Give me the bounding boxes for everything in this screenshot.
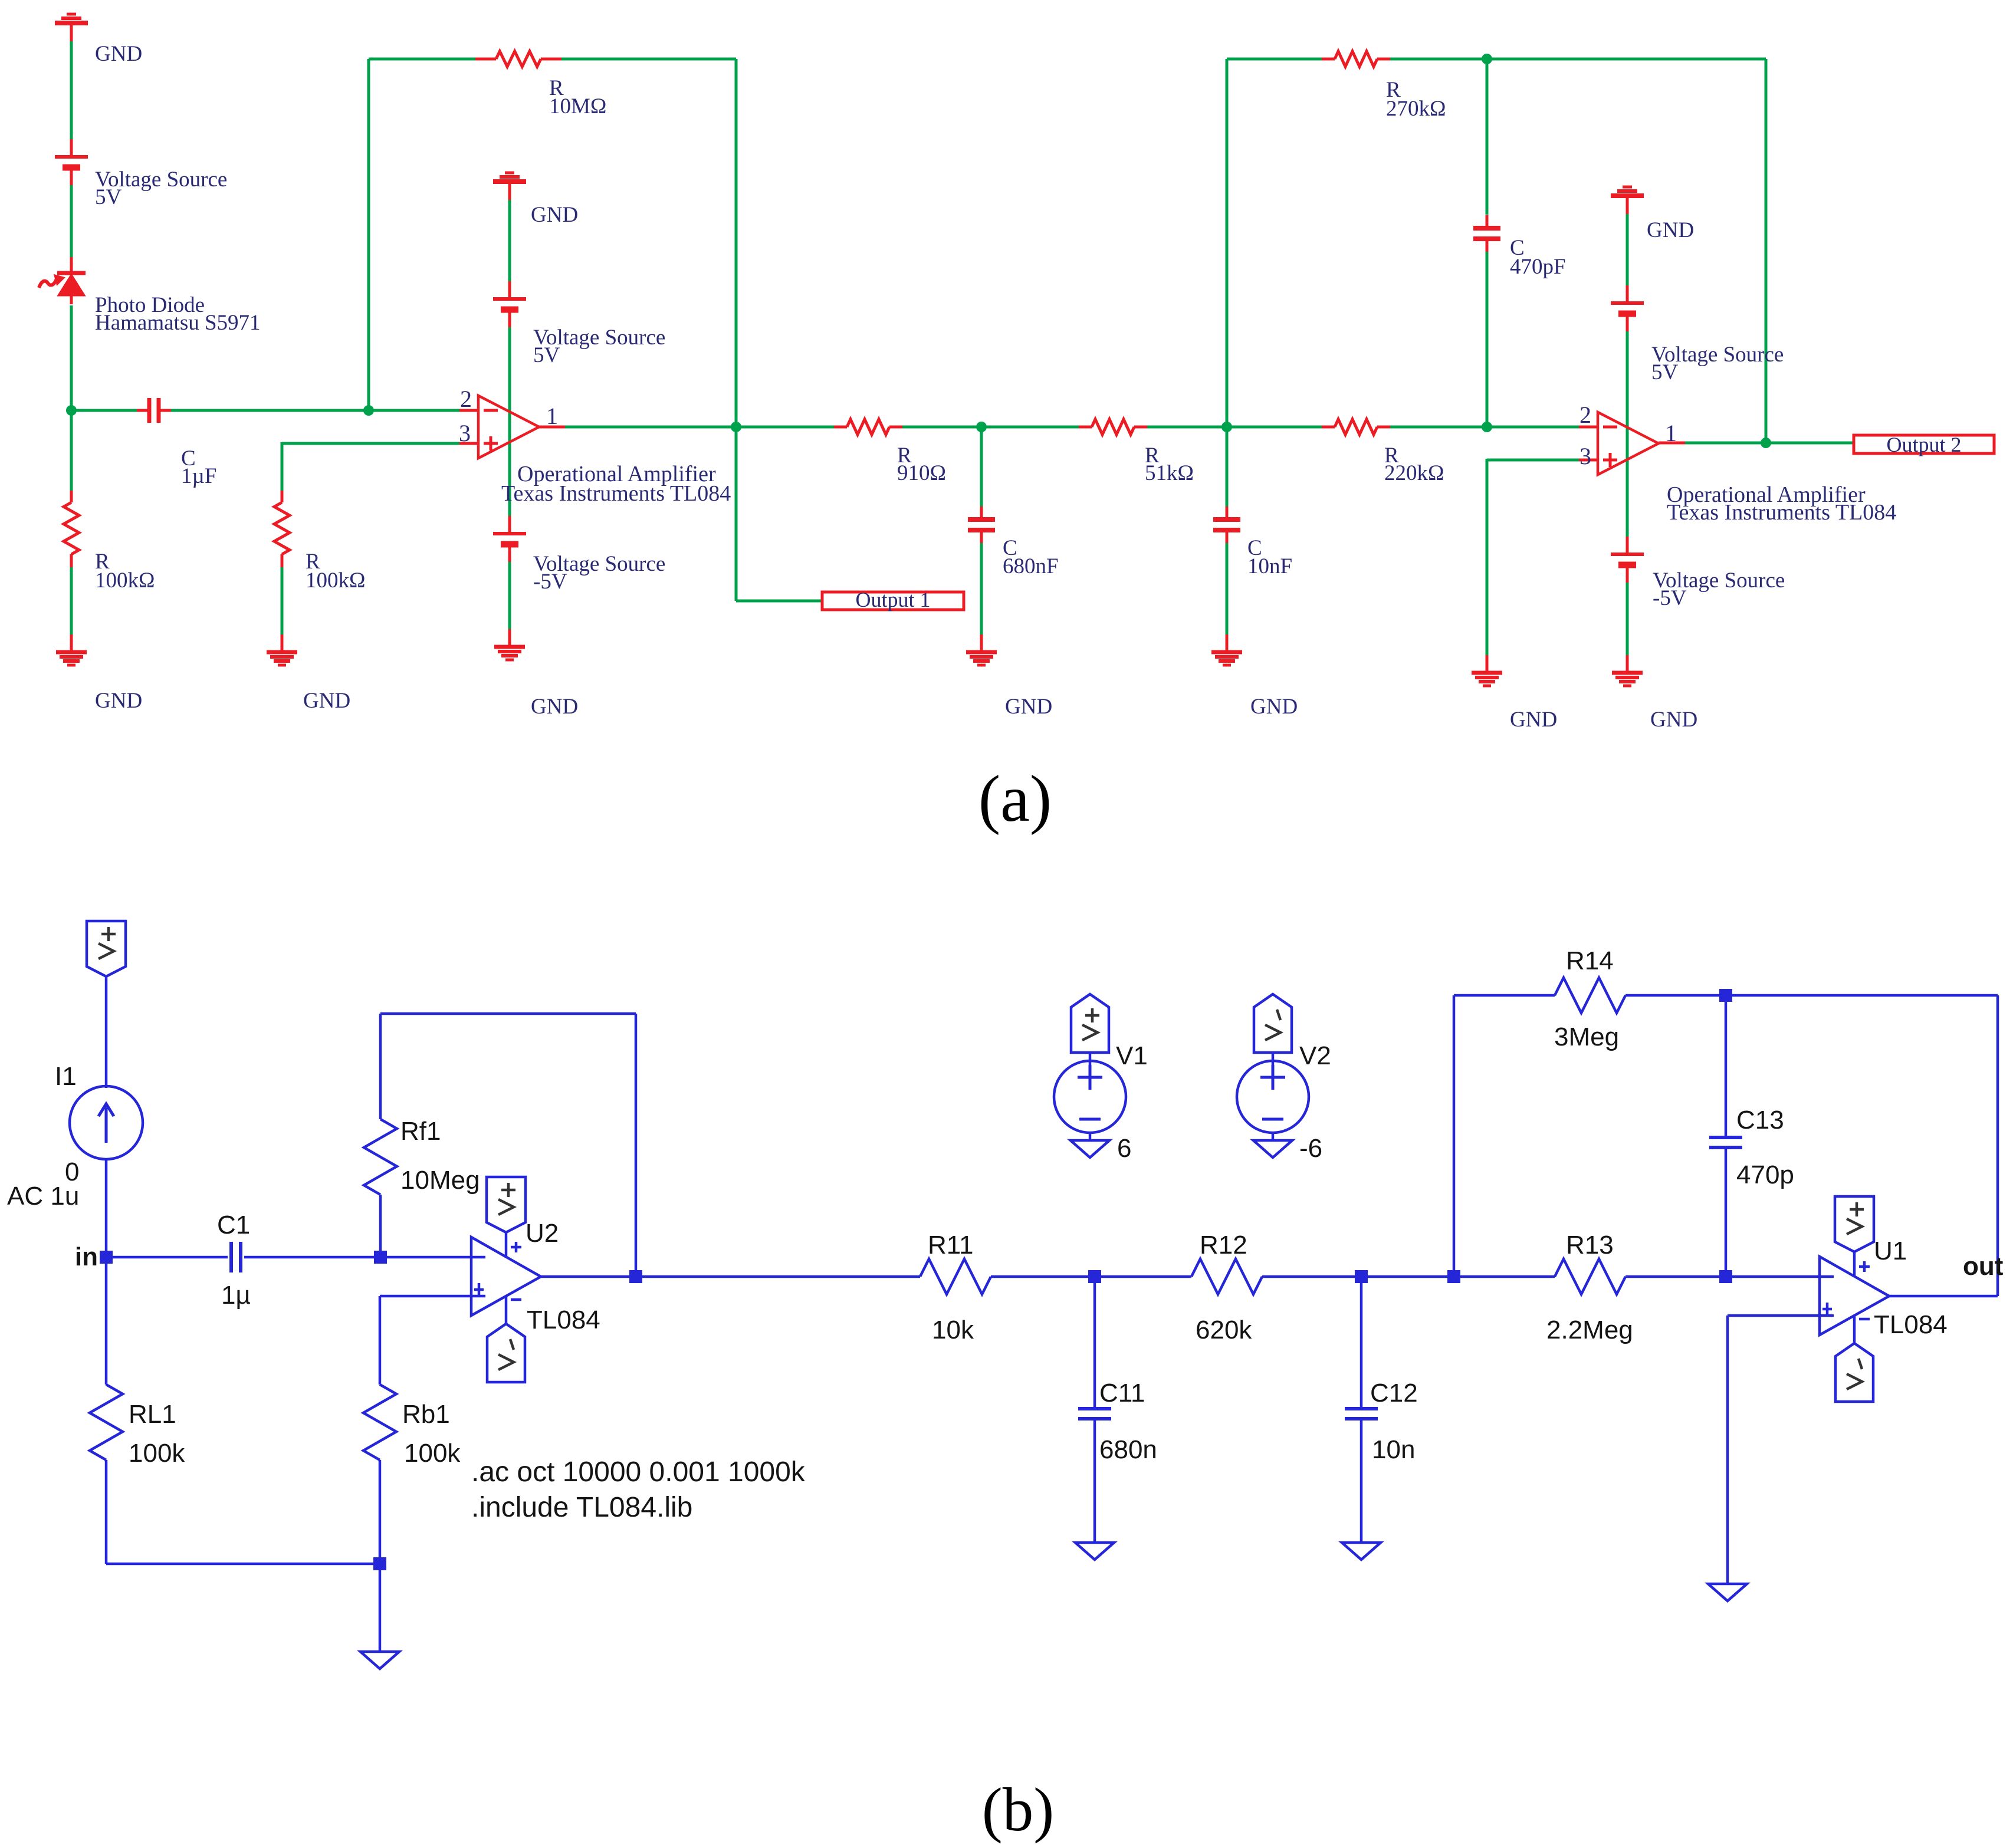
wire (output row) [565, 426, 834, 429]
capacitor C13 470p column [1709, 995, 1742, 1277]
svg-text:Texas Instruments TL084: Texas Instruments TL084 [1667, 500, 1896, 525]
svg-text:3: 3 [1579, 443, 1591, 469]
svg-text:in: in [75, 1242, 98, 1271]
node (R12/R13/R14 tap) [1447, 1270, 1460, 1283]
svg-text:GND: GND [1650, 708, 1697, 732]
wire [1147, 426, 1322, 429]
op-amp U1 TL084 (stage 1) [478, 396, 539, 458]
svg-text:GND: GND [1250, 695, 1298, 719]
ground GND (op-amp2 V-) [1612, 655, 1643, 686]
resistor R 100k (bias) [274, 491, 290, 567]
svg-text:10k: 10k [932, 1316, 974, 1344]
ground GND (op-amp1 V-) [494, 629, 525, 660]
wire (C12 column) [1360, 1277, 1363, 1407]
node (output2) [1761, 438, 1771, 448]
wire [105, 976, 108, 1088]
net flag V+ (U1) [1835, 1196, 1874, 1252]
label Voltage Source 5V [95, 167, 227, 209]
node (output / feedback / Output1) [731, 422, 741, 432]
node (C1/Rf1/U2-) [374, 1251, 387, 1264]
wire (RL1 column) [105, 1257, 108, 1385]
svg-text:(b): (b) [982, 1775, 1054, 1844]
wire [991, 1275, 1191, 1278]
ground (C11) [1075, 1543, 1114, 1560]
svg-text:100kΩ: 100kΩ [306, 568, 366, 593]
wire (pin3 stub) [459, 442, 478, 445]
resistor R13 2.2Meg [1555, 1259, 1625, 1294]
wire (Rf1 bottom) [379, 1195, 382, 1257]
capacitor C1 1u [231, 1242, 241, 1272]
capacitor C 10nF [1213, 507, 1240, 543]
svg-text:470p: 470p [1736, 1160, 1794, 1189]
svg-text:R11: R11 [928, 1231, 973, 1260]
wire (C10n drop) [1226, 427, 1229, 507]
wire (feedback2 right riser) [1765, 59, 1768, 443]
wire (C680n drop) [980, 427, 983, 507]
wire [508, 327, 511, 516]
label Voltage Source -5V [533, 552, 665, 594]
wire (bottom joining) [106, 1460, 380, 1564]
wire [1262, 1275, 1555, 1278]
svg-text:R14: R14 [1566, 946, 1614, 975]
ground GND (op-amp1 V+) [493, 173, 526, 200]
wire [1625, 994, 1998, 997]
svg-text:GND: GND [1647, 218, 1694, 242]
wire [106, 1256, 228, 1259]
svg-text:2: 2 [460, 386, 472, 412]
voltage source V1 6 [1054, 1053, 1126, 1158]
node (U2 out / feedback) [629, 1270, 642, 1283]
svg-text:220kΩ: 220kΩ [1384, 461, 1444, 485]
label R 270k [1386, 78, 1446, 121]
svg-text:Texas Instruments TL084: Texas Instruments TL084 [501, 481, 731, 506]
label R 100k [306, 550, 366, 593]
resistor R 100k (left) [64, 491, 79, 567]
resistor R14 3Meg [1555, 978, 1625, 1013]
wire (U2 out to R11) [541, 1275, 905, 1278]
svg-text:GND: GND [95, 689, 142, 713]
svg-text:10Meg: 10Meg [400, 1166, 480, 1195]
svg-text:R13: R13 [1566, 1231, 1614, 1260]
wire [1390, 426, 1579, 429]
svg-text:10MΩ: 10MΩ [549, 94, 606, 119]
resistor R11 10k [920, 1259, 991, 1294]
resistor R 270k (feedback) [1322, 51, 1390, 67]
label Voltage Source 5V [533, 325, 665, 367]
wire (pin2 stub op-amp2) [1579, 426, 1598, 429]
svg-text:100k: 100k [404, 1439, 461, 1468]
op-amp U1 TL084 [1820, 1252, 1889, 1343]
wire (feedback riser) [367, 59, 370, 410]
wire [379, 1564, 382, 1652]
node (R910/C680n) [976, 422, 987, 432]
net flag V- (V2) [1254, 994, 1292, 1053]
wire [1390, 58, 1766, 61]
node (feedback2 / C470p) [1482, 54, 1492, 64]
svg-text:out: out [1963, 1252, 2004, 1281]
svg-text:.include TL084.lib: .include TL084.lib [471, 1492, 692, 1523]
resistor Rf1 10Meg [364, 1119, 397, 1195]
wire [561, 58, 736, 61]
svg-text:51kΩ: 51kΩ [1145, 461, 1194, 485]
svg-text:C12: C12 [1370, 1379, 1418, 1408]
resistor R 51k [1079, 419, 1147, 435]
svg-text:C1: C1 [217, 1211, 250, 1239]
svg-text:TL084: TL084 [527, 1306, 600, 1334]
port Output 2 [1854, 433, 1994, 456]
svg-text:6: 6 [1117, 1134, 1131, 1163]
label R 910 [897, 443, 946, 485]
voltage source 5V (op-amp1) [493, 281, 526, 327]
wire (feedback loop U2) [380, 1014, 636, 1277]
svg-text:U1: U1 [1874, 1237, 1907, 1265]
node (feedback tap) [363, 405, 374, 416]
svg-text:.ac oct 10000 0.001 1000k: .ac oct 10000 0.001 1000k [471, 1456, 806, 1488]
label R 100k [95, 550, 155, 593]
svg-text:Rf1: Rf1 [400, 1117, 441, 1146]
wire [70, 41, 73, 139]
wire [1625, 1275, 1820, 1278]
svg-text:C13: C13 [1736, 1106, 1784, 1135]
ground (U1 +) [1708, 1584, 1747, 1601]
net flag V+ (I1 top) [87, 921, 126, 976]
ground (Rb1) [360, 1652, 399, 1669]
node (photodiode / C / RL) [66, 405, 77, 416]
capacitor C 470pF column [1473, 59, 1500, 427]
wire (out) [1889, 995, 1998, 1296]
label R 10M [549, 76, 606, 119]
wire (op-amp2 pin3 to ground) [1487, 459, 1579, 656]
svg-text:100kΩ: 100kΩ [95, 568, 155, 593]
node (R13/C13/U1-) [1719, 1270, 1732, 1283]
ground (C12) [1342, 1543, 1381, 1560]
svg-text:470pF: 470pF [1510, 255, 1566, 279]
voltage source -5V (op-amp1) [493, 516, 526, 562]
current source I1 [70, 1086, 143, 1159]
wire (R14 riser) [1454, 995, 1555, 1277]
wire [379, 1460, 382, 1564]
voltage source -5V (op-amp2) [1611, 537, 1644, 583]
ground GND (C10n) [1211, 634, 1242, 665]
voltage source 5V (photodiode bias) [55, 139, 88, 185]
svg-text:5V: 5V [1651, 360, 1679, 384]
label R 220k [1384, 443, 1444, 485]
wire [281, 567, 284, 636]
svg-text:3Meg: 3Meg [1554, 1022, 1619, 1051]
wire (feedback2 riser) [1226, 59, 1229, 427]
svg-text:1µ: 1µ [221, 1281, 251, 1310]
node (R12/C12) [1355, 1270, 1368, 1283]
wire (feedback top rail) [369, 58, 475, 61]
svg-text:GND: GND [303, 689, 350, 713]
wire (output stub) [539, 426, 565, 429]
net flag V- (U1) [1835, 1343, 1873, 1402]
wire [1626, 583, 1629, 656]
ground GND (C680n) [966, 634, 997, 665]
wire [905, 1275, 920, 1278]
svg-text:U2: U2 [526, 1219, 559, 1248]
node (R14/C13) [1719, 989, 1732, 1002]
svg-text:R12: R12 [1200, 1231, 1247, 1260]
svg-text:I1: I1 [55, 1062, 77, 1091]
label C 10nF [1247, 536, 1292, 578]
net flag V+ (V1) [1071, 994, 1109, 1053]
net flag V+ (U2) [487, 1177, 526, 1232]
label C 680nF [1003, 536, 1059, 578]
svg-text:5V: 5V [533, 343, 560, 367]
wire (U1 + input to ground) [1728, 1316, 1820, 1584]
svg-text:AC 1u: AC 1u [7, 1182, 79, 1211]
label C 1uF [181, 446, 216, 488]
wire [71, 409, 137, 412]
svg-text:100k: 100k [129, 1439, 185, 1468]
node in [100, 1251, 113, 1264]
wire [70, 567, 73, 636]
svg-text:270kΩ: 270kΩ [1386, 97, 1446, 121]
svg-text:10n: 10n [1372, 1435, 1415, 1464]
svg-text:Rb1: Rb1 [402, 1400, 450, 1429]
resistor R 220k [1322, 419, 1390, 435]
label C 470pF [1510, 236, 1566, 279]
resistor R12 620k [1191, 1259, 1262, 1294]
wire (output row 2) [1685, 442, 1853, 445]
svg-text:-6: -6 [1299, 1134, 1322, 1163]
svg-text:-5V: -5V [1653, 586, 1687, 610]
node (R11/C11) [1088, 1270, 1101, 1283]
resistor RL1 100k [90, 1385, 123, 1460]
ground GND (below RL) [56, 634, 87, 665]
label Voltage Source 5V [1651, 343, 1784, 384]
svg-text:3: 3 [459, 420, 471, 446]
svg-text:Hamamatsu S5971: Hamamatsu S5971 [95, 311, 261, 335]
wire (feedback2 top rail) [1227, 58, 1322, 61]
wire [980, 543, 983, 636]
wire (inverting input stub) [459, 409, 478, 412]
ground GND (below bias R) [267, 634, 297, 665]
label Operational Amplifier Texas Instruments TL084 (2) [1667, 482, 1896, 525]
wire [508, 562, 511, 630]
wire [1226, 543, 1229, 636]
op-amp U2 TL084 [471, 1232, 541, 1324]
svg-text:GND: GND [95, 42, 142, 66]
capacitor C 680nF [968, 507, 995, 543]
wire [1626, 214, 1629, 285]
photo diode D1 Hamamatsu S5971 [39, 257, 86, 304]
wire (U2 + input to Rb1) [380, 1296, 471, 1385]
svg-text:620k: 620k [1196, 1316, 1252, 1344]
wire (non-inverting input) [282, 442, 459, 491]
svg-text:2.2Meg: 2.2Meg [1546, 1316, 1633, 1344]
capacitor C11 680n [1078, 1409, 1111, 1419]
voltage source 5V (op-amp2) [1611, 285, 1644, 331]
wire [1626, 331, 1629, 537]
wire [1093, 1419, 1096, 1543]
wire (pin3 stub) [1579, 459, 1598, 462]
wire [70, 305, 73, 410]
svg-text:GND: GND [1005, 695, 1052, 719]
wire (to Output 1) [736, 427, 822, 601]
svg-text:1µF: 1µF [181, 464, 216, 488]
svg-text:C11: C11 [1099, 1379, 1145, 1408]
ground GND (op-amp2 pin3) [1472, 655, 1502, 686]
svg-text:GND: GND [531, 695, 578, 719]
svg-text:Output 1: Output 1 [855, 588, 930, 611]
port Output 1 [822, 588, 964, 611]
wire (R load column) [70, 410, 73, 491]
capacitor C12 10n [1345, 1409, 1378, 1419]
resistor R 910 [834, 419, 902, 435]
node (RL1/Rb1 junction) [373, 1557, 386, 1570]
svg-text:5V: 5V [95, 185, 122, 209]
voltage source V2 -6 [1237, 1053, 1309, 1158]
svg-text:V2: V2 [1299, 1041, 1331, 1070]
op-amp U2 TL084 (stage 2) [1598, 412, 1659, 475]
svg-text:-5V: -5V [533, 570, 567, 594]
svg-text:GND: GND [531, 203, 578, 227]
wire (C11 column) [1093, 1277, 1096, 1407]
wire (output stub) [1659, 442, 1685, 445]
svg-text:V1: V1 [1116, 1041, 1148, 1070]
wire (feedback right riser) [735, 59, 738, 427]
node (C470p bottom) [1482, 422, 1492, 432]
svg-text:RL1: RL1 [129, 1400, 176, 1429]
resistor Rb1 100k [363, 1385, 396, 1460]
wire [105, 1159, 108, 1257]
net flag V- (U2) [487, 1324, 525, 1382]
capacitor C 1uF [137, 398, 171, 423]
svg-text:2: 2 [1579, 402, 1591, 428]
svg-text:680n: 680n [1099, 1435, 1157, 1464]
resistor R 10M (feedback) [475, 51, 561, 67]
wire [508, 200, 511, 281]
label R 51k [1145, 443, 1194, 485]
svg-text:910Ω: 910Ω [897, 461, 946, 485]
node (R51k/C10n/feedback2) [1221, 422, 1232, 432]
label Operational Amplifier Texas Instruments TL084 [501, 462, 731, 506]
svg-text:GND: GND [1510, 708, 1557, 732]
wire [1360, 1419, 1363, 1543]
svg-text:1: 1 [546, 403, 558, 429]
svg-text:10nF: 10nF [1247, 554, 1292, 578]
ground GND (top left, inverted) [55, 14, 88, 41]
svg-text:Output 2: Output 2 [1886, 433, 1961, 456]
ground GND (op-amp2 V+) [1611, 187, 1644, 214]
wire [70, 185, 73, 257]
wire [902, 426, 1079, 429]
svg-text:(a): (a) [978, 762, 1052, 836]
svg-text:680nF: 680nF [1003, 554, 1059, 578]
label Photo Diode Hamamatsu S5971 [95, 293, 261, 335]
svg-text:TL084: TL084 [1874, 1310, 1948, 1339]
wire [171, 409, 459, 412]
wire [244, 1256, 471, 1259]
label Voltage Source -5V [1653, 568, 1785, 610]
